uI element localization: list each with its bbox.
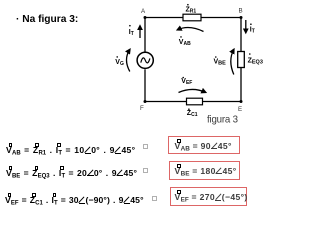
result box VEF (170, 187, 247, 206)
svg-text:ZEQ3: ZEQ3 (248, 58, 263, 66)
svg-text:VBE: VBE (214, 58, 227, 66)
svg-text:IT: IT (250, 27, 255, 35)
resistor ZR1 (183, 4, 201, 21)
svg-text:ZR1: ZR1 (186, 7, 197, 15)
wire bottom F-E (145, 101, 241, 103)
equation VBE (6, 168, 137, 180)
equation VEF (5, 195, 144, 207)
placeholder square 2 (143, 168, 148, 173)
arrow VEF (179, 77, 206, 93)
arrow VAB (178, 28, 204, 48)
svg-text:A: A (141, 8, 146, 15)
node A (141, 8, 147, 19)
node E (238, 100, 243, 113)
result box VAB (168, 136, 240, 155)
node F (140, 100, 147, 112)
svg-text:B: B (239, 8, 243, 15)
arrow IT right (246, 20, 255, 35)
svg-text:VG: VG (115, 59, 124, 67)
svg-text:ZC1: ZC1 (187, 110, 198, 118)
svg-text:E: E (238, 106, 242, 113)
result box VBE (169, 161, 240, 180)
wire right B-E (240, 18, 242, 102)
equation VAB (6, 145, 135, 157)
svg-text:F: F (140, 105, 144, 112)
arrow VBE (214, 50, 234, 75)
svg-text:VAB: VAB (179, 39, 191, 47)
arrow IT left (129, 25, 140, 38)
placeholder square 3 (152, 196, 157, 201)
impedance ZEQ3 (238, 52, 263, 68)
title "Na figura 3:" (16, 14, 78, 25)
wire left A-F (144, 18, 146, 102)
capacitor ZC1 (187, 98, 203, 118)
placeholder square 1 (143, 144, 148, 149)
svg-text:IT: IT (129, 29, 134, 37)
source VG circle (137, 52, 153, 68)
svg-text:VEF: VEF (181, 78, 192, 86)
node B (239, 8, 243, 20)
svg-text:figura 3: figura 3 (207, 114, 238, 125)
arrow VG (115, 50, 130, 72)
wire top A-B (145, 17, 241, 19)
